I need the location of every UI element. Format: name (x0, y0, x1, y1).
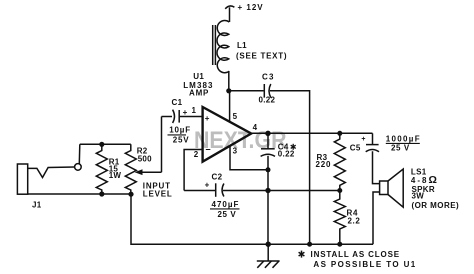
svg-text:25 V: 25 V (218, 210, 237, 219)
svg-text:+: + (361, 136, 365, 143)
svg-text:(SEE TEXT): (SEE TEXT) (236, 52, 287, 61)
ground (257, 244, 280, 268)
node R2 bottom dot (128, 192, 133, 197)
resistor R3 (334, 133, 345, 190)
svg-text:220: 220 (316, 160, 332, 169)
svg-text:−: − (205, 144, 210, 154)
potentiometer R2 (125, 144, 136, 194)
node R3/R4 junction dot (337, 188, 342, 193)
capacitor C2 (216, 183, 224, 197)
wire C4 bottom down to ground rail (267, 156, 269, 245)
svg-text:C2: C2 (212, 172, 223, 181)
svg-text:3: 3 (233, 147, 238, 156)
svg-text:25V: 25V (173, 135, 190, 144)
svg-text:INSTALL AS CLOSE: INSTALL AS CLOSE (311, 250, 400, 259)
node R4 bottom dot (337, 242, 342, 247)
wire C2 right to ground-line node (223, 190, 268, 192)
svg-text:C3: C3 (262, 73, 275, 82)
capacitor C1 (173, 110, 180, 123)
node pin3 junction dot (266, 167, 271, 172)
op-amp U1 (203, 107, 252, 162)
wire V+ row to C3 (229, 90, 264, 92)
svg-text:1000µF: 1000µF (386, 135, 421, 144)
inductor L1 (213, 20, 230, 72)
resistor R4 (334, 191, 345, 245)
wire C2 row left (184, 190, 215, 192)
svg-text:C1: C1 (172, 98, 183, 107)
C4 asterisk star (291, 144, 296, 150)
wire speaker bottom stub down to ground rail (373, 192, 380, 244)
wire C1 row (162, 116, 173, 118)
wire C1 to pin1 (180, 116, 203, 118)
wire C5 bottom to speaker top stub (373, 151, 380, 183)
svg-text:2: 2 (194, 150, 199, 159)
svg-text:1W: 1W (109, 171, 122, 180)
wire bottom rail (131, 194, 373, 244)
wire input vertical from C1 row to wiper row (161, 117, 163, 173)
jack J1 (17, 144, 81, 194)
wire bottom-left row (28, 193, 131, 195)
speaker LS1 (380, 169, 404, 207)
svg-text:5: 5 (233, 112, 238, 121)
wire output corner down to C5 (372, 133, 374, 144)
R2 wiper arrowhead (135, 169, 143, 175)
svg-text:470µF: 470µF (212, 200, 240, 209)
wire top-left row (80, 143, 131, 145)
capacitor C5 (366, 145, 379, 152)
wire wiper row (140, 171, 162, 173)
resistor R1 (96, 144, 107, 194)
+12V supply terminal (225, 6, 234, 22)
node ground junction dot (266, 242, 271, 247)
node output/C4 dot (265, 131, 270, 136)
wire pin2 stub (184, 150, 203, 191)
svg-text:AMP: AMP (189, 89, 209, 98)
wire pin3 stub down and right (230, 146, 268, 170)
note asterisk star (299, 251, 305, 258)
capacitor C3 (264, 84, 271, 98)
wire L1 bottom to V+ node (228, 71, 230, 91)
svg-text:4: 4 (253, 123, 258, 132)
wire C3 right to corner then down to bottom rail (270, 91, 310, 244)
wire output row pin4 (251, 132, 372, 134)
wire C4 top lead (267, 133, 269, 149)
svg-text:AS POSSIBLE TO U1: AS POSSIBLE TO U1 (313, 260, 416, 269)
svg-text:L1: L1 (237, 41, 247, 50)
svg-text:+: + (205, 114, 210, 123)
svg-text:0.22: 0.22 (259, 96, 276, 105)
node C3-line bottom dot (307, 242, 312, 247)
svg-text:U1: U1 (193, 72, 204, 81)
svg-text:+: + (183, 108, 188, 117)
svg-text:1: 1 (192, 106, 197, 115)
node R1 bottom dot (99, 191, 104, 196)
wire pin5 to V+ node (229, 91, 231, 122)
svg-text:J1: J1 (32, 200, 42, 209)
watermark NEXT.GR (194, 126, 287, 153)
svg-text:+: + (205, 181, 210, 190)
svg-text:3W: 3W (412, 192, 425, 201)
capacitor C4 (261, 149, 275, 157)
svg-text:10µF: 10µF (169, 125, 191, 134)
svg-text:2.2: 2.2 (348, 217, 361, 226)
wire C2 row extension to feedback node (268, 190, 340, 192)
node R3 top junction dot (337, 131, 342, 136)
svg-text:LEVEL: LEVEL (143, 190, 173, 199)
svg-text:C5: C5 (350, 143, 361, 152)
svg-text:+ 12V: + 12V (238, 3, 264, 12)
svg-text:25 V: 25 V (391, 144, 410, 153)
node V+ junction dot (226, 88, 231, 93)
node R1 top dot (99, 142, 104, 147)
svg-text:500: 500 (138, 155, 152, 164)
node C2 junction dot (265, 188, 270, 193)
svg-text:(OR MORE): (OR MORE) (412, 201, 460, 210)
svg-text:0.22: 0.22 (278, 150, 295, 159)
